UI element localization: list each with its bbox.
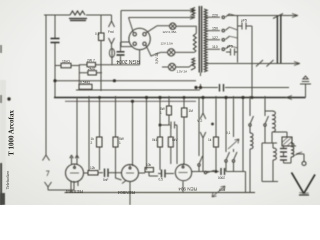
resistor R6 xyxy=(99,33,105,41)
wire x146.5 xyxy=(146,96,148,170)
wire xyxy=(54,81,56,98)
selector bus xyxy=(237,16,239,63)
svg-text:2: 2 xyxy=(91,141,93,145)
svg-text:1,5V 2A: 1,5V 2A xyxy=(177,70,188,74)
capacitor C12 xyxy=(171,122,177,129)
arrow into transformer xyxy=(190,9,195,20)
capacitor C10 xyxy=(238,23,253,30)
wire xyxy=(121,41,130,43)
svg-text:REN 904: REN 904 xyxy=(178,186,197,191)
wire x233.5 pot arrow xyxy=(233,96,235,137)
transformer secondary winding xyxy=(204,9,207,72)
wire second vertical xyxy=(54,15,56,81)
capacitor C14 xyxy=(105,169,109,178)
tap 110 xyxy=(206,46,230,50)
ground G1 xyxy=(300,76,311,98)
wire xyxy=(251,26,253,98)
pot arrow xyxy=(228,139,239,149)
svg-text:T 1000 Arcofax: T 1000 Arcofax xyxy=(8,110,16,156)
switch K2 xyxy=(233,149,235,172)
transformer left winding c xyxy=(191,58,195,70)
terminal E xyxy=(45,182,52,190)
transformer left winding a xyxy=(192,8,195,16)
svg-text:5nF: 5nF xyxy=(103,178,109,182)
mains line bottom xyxy=(206,63,300,65)
resistor R15 xyxy=(145,168,154,173)
resistor R5 xyxy=(79,84,92,89)
svg-text:µF5: µF5 xyxy=(227,45,233,49)
dropper resistor zigzag xyxy=(193,33,196,51)
rectifier loop top xyxy=(121,11,195,47)
svg-text:V 2: V 2 xyxy=(197,119,202,123)
output transformer coil top xyxy=(265,110,272,112)
svg-text:1k: 1k xyxy=(208,138,212,142)
tube V1 RES964 xyxy=(66,164,84,182)
output: wire x250 coil xyxy=(249,96,251,133)
svg-text:1: 1 xyxy=(160,111,162,115)
wire x77 xyxy=(75,98,79,166)
capacitor C11 xyxy=(226,49,238,56)
coil L4 xyxy=(273,148,276,160)
transformer core xyxy=(199,6,201,73)
svg-text:5kV: 5kV xyxy=(172,138,178,142)
speaker capacitor Ca xyxy=(280,149,287,153)
svg-text:0k1: 0k1 xyxy=(152,138,157,142)
switch K3 horizontal xyxy=(204,171,206,173)
dark scan corner bottom-left xyxy=(0,193,5,205)
wire x265 w/ contact xyxy=(264,96,266,143)
wire heater line xyxy=(79,64,140,66)
svg-text:0,5: 0,5 xyxy=(159,178,164,182)
svg-text:1M: 1M xyxy=(189,109,194,113)
tube V2 REN904 xyxy=(122,165,139,182)
switch K1 xyxy=(198,164,200,166)
speaker coil xyxy=(291,143,294,157)
svg-text:2W 7: 2W 7 xyxy=(87,59,95,63)
tube V3 REN904 xyxy=(175,164,191,180)
capacitor C1 xyxy=(51,39,60,43)
svg-text:RES964: RES964 xyxy=(65,189,83,194)
svg-text:10k: 10k xyxy=(146,163,152,167)
mains cord verticals xyxy=(277,16,280,64)
svg-text:2MΩ: 2MΩ xyxy=(88,67,96,71)
connector forks (Trennstelle) xyxy=(109,15,115,27)
capacitor C15 xyxy=(162,170,166,178)
wires speaker cluster xyxy=(272,132,296,163)
resistor R11 xyxy=(168,137,173,147)
svg-text:0,5MΩ: 0,5MΩ xyxy=(80,81,91,85)
wire x216 w/ resistor xyxy=(215,96,217,172)
svg-text:220: 220 xyxy=(212,13,218,17)
coil L3 xyxy=(272,111,275,132)
wire x199 w/ contact xyxy=(198,98,200,172)
resistor R4 xyxy=(88,71,97,75)
wire x184 w/ resistor xyxy=(183,96,185,164)
svg-text:127: 127 xyxy=(212,36,218,40)
fuse F1 xyxy=(109,49,114,58)
capacitor C9 xyxy=(220,84,224,92)
tube leads xyxy=(121,18,160,65)
main bus B4 xyxy=(54,97,306,99)
transformer bottom tick xyxy=(200,73,202,88)
wire xyxy=(48,181,74,190)
anode line tube3 xyxy=(192,172,246,193)
dark scan edge mark mid xyxy=(0,95,2,103)
svg-text:3,5V 2A: 3,5V 2A xyxy=(155,52,159,64)
svg-text:Fнd: Fнd xyxy=(108,30,114,34)
svg-text:REN904: REN904 xyxy=(117,190,135,195)
resistor R9 xyxy=(158,137,163,147)
faint left band xyxy=(0,80,6,205)
svg-text:Telefunken: Telefunken xyxy=(5,170,10,190)
volume arrow 600 xyxy=(212,186,225,197)
resistor R12 xyxy=(182,108,188,117)
wire cap branch xyxy=(120,42,122,65)
label 7 xyxy=(46,171,49,176)
wire to ext speaker xyxy=(296,154,304,161)
svg-text:600: 600 xyxy=(219,187,225,191)
wire x160 w/ resistor xyxy=(160,96,170,170)
svg-text:µF5: µF5 xyxy=(241,19,247,23)
resistor R14 xyxy=(88,171,98,176)
capacitor C2 xyxy=(117,52,125,55)
wire xyxy=(262,143,278,182)
antenna coil L1 xyxy=(70,11,85,15)
big ground arrow xyxy=(292,173,316,194)
pilot lamp 3 xyxy=(168,63,175,70)
wire left vertical antenna lead xyxy=(45,15,47,150)
wire x102 w/ resistor xyxy=(99,98,101,171)
bus line B1 xyxy=(55,80,196,82)
choke coil L2 xyxy=(250,133,253,149)
capacitor C13 xyxy=(221,168,225,175)
terminal A xyxy=(43,150,50,161)
resistor R7 xyxy=(97,137,103,147)
svg-text:110: 110 xyxy=(212,45,218,49)
speaker capacitor Cb xyxy=(280,157,287,161)
wire x203 connector xyxy=(200,96,206,172)
bottom bus xyxy=(65,192,256,194)
wire x226 w/ contact xyxy=(225,96,227,172)
arrow on bus right xyxy=(286,96,292,100)
wire h143 xyxy=(262,142,277,144)
bus line B5 xyxy=(65,100,196,102)
dark scan edge left lower xyxy=(0,163,2,205)
resistor R2 xyxy=(87,62,96,66)
wire xyxy=(78,65,80,84)
tap 150 xyxy=(206,27,230,31)
grid cap lead xyxy=(70,155,74,164)
resistor R13 xyxy=(214,137,219,147)
svg-text:12V 0,35A: 12V 0,35A xyxy=(162,30,176,34)
svg-text:RGN 2004: RGN 2004 xyxy=(116,58,140,64)
dark scan edge mark upper xyxy=(0,45,2,53)
svg-text:0,1: 0,1 xyxy=(226,131,231,135)
rectifier tube RGN2004 xyxy=(129,28,150,49)
mains line top xyxy=(227,15,298,17)
svg-text:12V 2,5A: 12V 2,5A xyxy=(161,42,173,46)
svg-text:0,1: 0,1 xyxy=(95,32,100,36)
switch S1 ticks xyxy=(256,60,274,67)
svg-text:2000: 2000 xyxy=(218,176,225,180)
switch tick xyxy=(273,14,283,19)
pilot lamp 2 xyxy=(168,49,175,56)
vertical x100 with resistor xyxy=(100,15,102,91)
resistor R1 xyxy=(61,63,71,68)
tap 127 xyxy=(206,36,230,40)
wire x243 xyxy=(242,96,244,172)
pilot lamp 1 xyxy=(170,23,176,29)
bus line B2 with series capacitor xyxy=(196,87,289,89)
speaker magnet box xyxy=(282,137,292,146)
wire top antenna line xyxy=(44,14,112,16)
tap 220 xyxy=(206,14,230,17)
svg-text:12k: 12k xyxy=(90,166,96,170)
svg-text:11kΩ: 11kΩ xyxy=(62,59,70,63)
svg-text:150: 150 xyxy=(212,27,218,31)
bus line B3 xyxy=(76,89,200,91)
wire x135 tube2 xyxy=(132,101,134,166)
wire x169 w/ two resistors xyxy=(169,96,177,164)
wire x115.5 w/ resistor xyxy=(116,96,122,180)
svg-text:1: 1 xyxy=(119,141,121,145)
resistor R10 xyxy=(167,106,172,115)
resistor R8 xyxy=(113,137,118,147)
wire x89 xyxy=(88,96,90,170)
